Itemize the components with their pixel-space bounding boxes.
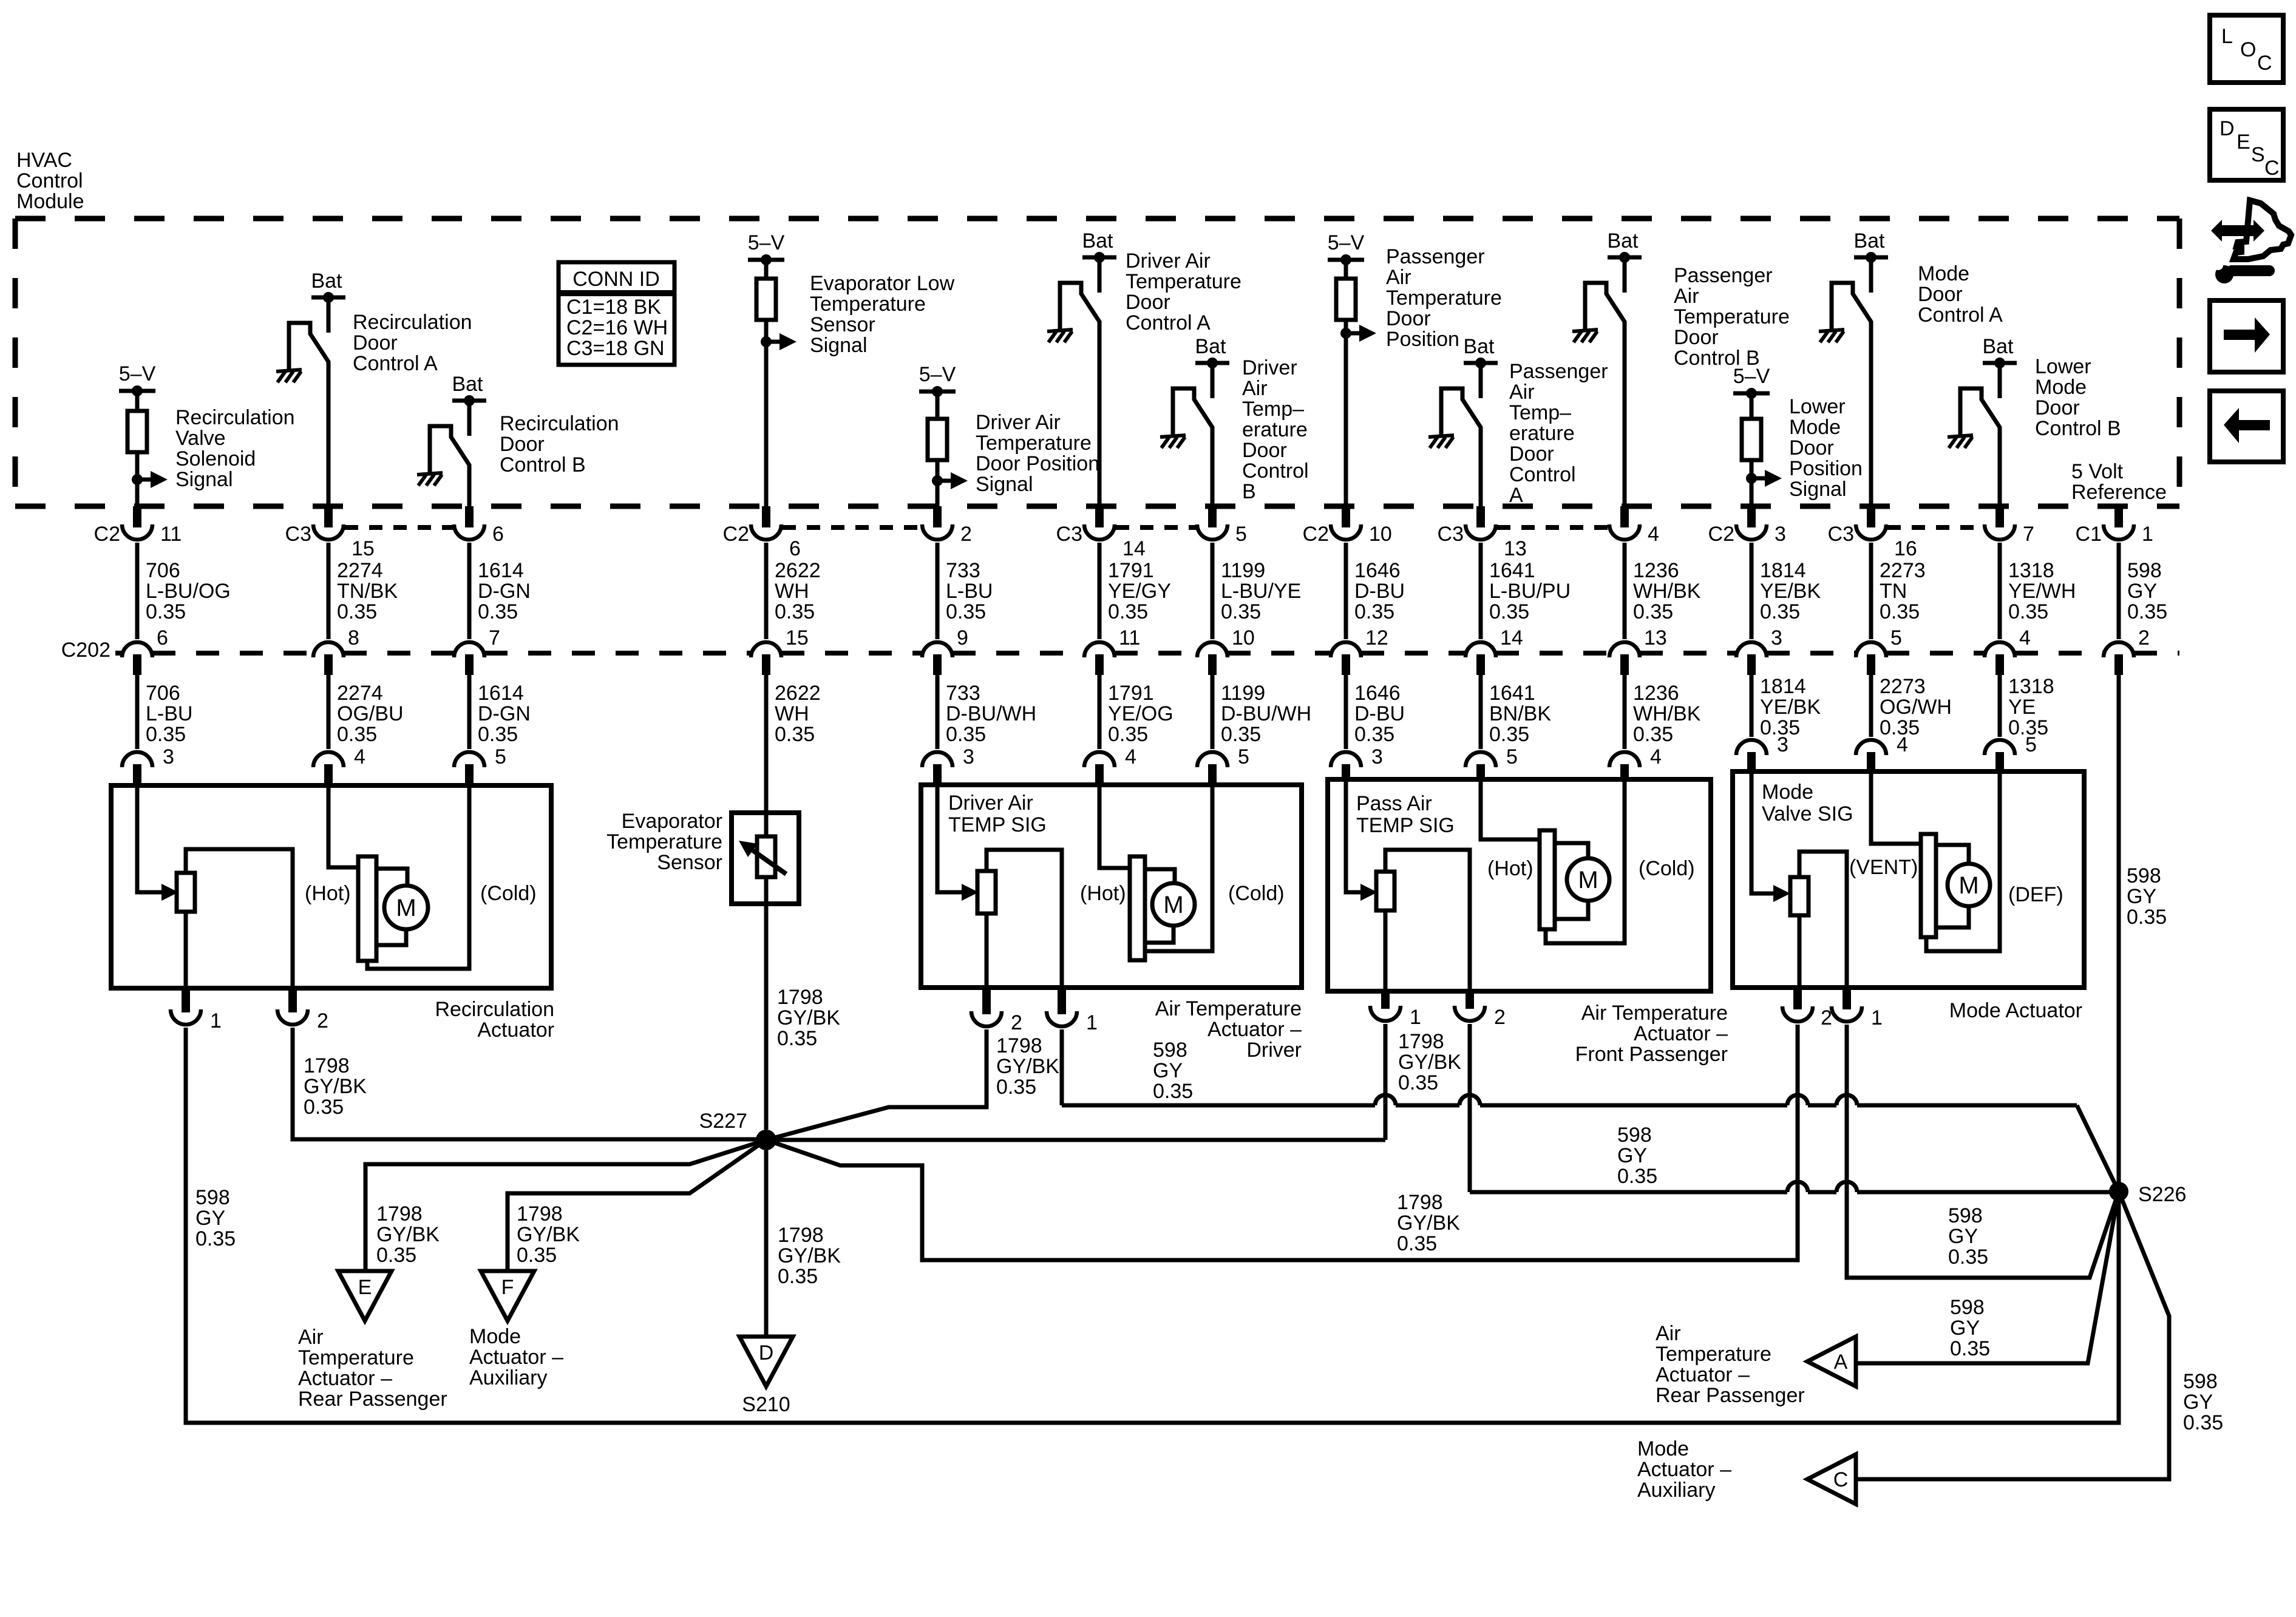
svg-text:GY/BK: GY/BK xyxy=(996,1055,1059,1078)
svg-text:706: 706 xyxy=(146,559,180,582)
svg-text:C3: C3 xyxy=(1438,523,1464,546)
svg-text:C2: C2 xyxy=(1303,523,1329,546)
svg-text:0.35: 0.35 xyxy=(1354,723,1394,746)
svg-text:D-BU/WH: D-BU/WH xyxy=(1221,702,1311,725)
wire 1318 YE (below C202, Lower Mode Door Control B) xyxy=(1998,675,2002,737)
svg-text:1798: 1798 xyxy=(304,1054,350,1077)
wire 1646 D-BU (Passenger Air Temperature Door Position) xyxy=(1344,543,1348,639)
thermistor (evaporator temperature sensor) xyxy=(739,836,786,877)
connector C2 pin 6 (HVAC module, Evaporator Low Temperature Sensor Signal) xyxy=(723,506,801,560)
svg-text:A: A xyxy=(1509,484,1523,507)
label wire 2622 (Evaporator Low Temperature Sensor Signal) xyxy=(775,559,821,623)
wire 1614 D-GN (below C202, Recirculation Door Control B) xyxy=(467,675,472,749)
svg-text:1798: 1798 xyxy=(778,1224,824,1247)
mode actuator title xyxy=(1949,999,2082,1022)
label wire 1646 (Passenger Air Temperature Door Position) xyxy=(1354,559,1405,623)
svg-text:598: 598 xyxy=(1153,1039,1187,1062)
svg-text:5–V: 5–V xyxy=(1733,365,1770,388)
wire (recirc door control B to bar bottom) xyxy=(367,785,469,969)
connector C202 pin 15 (Evaporator Low Temperature Sensor Signal) xyxy=(751,626,809,675)
label (Lower Mode Door Control B) xyxy=(2035,355,2121,440)
svg-text:(Hot): (Hot) xyxy=(1487,857,1533,880)
label (Driver Air Temperature Door Position Signal) xyxy=(976,411,1099,496)
wire (bar to motor top, mode) xyxy=(1936,845,1969,864)
svg-text:Control: Control xyxy=(16,169,83,192)
svg-text:1236: 1236 xyxy=(1633,559,1679,582)
wire (driver door control A to bar) xyxy=(1099,785,1130,868)
svg-text:598: 598 xyxy=(195,1186,230,1209)
svg-text:598: 598 xyxy=(2127,559,2162,582)
svg-text:Rear Passenger: Rear Passenger xyxy=(298,1388,447,1411)
svg-text:L: L xyxy=(2221,25,2233,48)
svg-text:2: 2 xyxy=(317,1009,328,1032)
connector C202 pin 9 (Driver Air Temperature Door Position Signal) xyxy=(922,626,968,675)
switch/driver (Recirculation Door Control A) with ground xyxy=(276,323,328,509)
label wire 598 GY (driver pin1) xyxy=(1153,1039,1193,1103)
wire 1199 D-BU/WH (below C202, Driver Air Temperature Door Control B) xyxy=(1211,675,1215,749)
HVAC Control Module dashed box xyxy=(15,219,2179,506)
wire 1641 BN/BK (below C202, Passenger Air Temperature Door Control A) xyxy=(1479,675,1483,749)
svg-text:Passenger: Passenger xyxy=(1386,245,1485,268)
svg-text:5: 5 xyxy=(1238,745,1249,768)
svg-text:WH/BK: WH/BK xyxy=(1633,702,1701,725)
door bar (mode actuator) xyxy=(1921,834,1936,937)
wire 1798 GY/BK (driver pin2 to S227) xyxy=(766,1029,987,1140)
svg-text:Reference: Reference xyxy=(2071,481,2167,504)
motor M (driver actuator) xyxy=(1152,883,1195,926)
svg-text:Sensor: Sensor xyxy=(810,313,875,336)
HVAC Control Module label xyxy=(16,149,84,213)
potentiometer (driver actuator) xyxy=(977,871,996,914)
switch/driver (Driver Air Temperature Door Control B) with ground xyxy=(1160,388,1212,509)
svg-text:Recirculation: Recirculation xyxy=(435,998,554,1021)
svg-text:Door: Door xyxy=(1674,326,1719,349)
connector pin 5 (actuator, Passenger Air Temperature Door Control A) xyxy=(1466,745,1518,779)
switch/driver (Passenger Air Temperature Door Control A) with ground xyxy=(1428,388,1481,509)
connector pin 5 (actuator, Recirculation Door Control B) xyxy=(454,745,506,785)
svg-text:E: E xyxy=(2237,131,2250,154)
DESC icon box xyxy=(2210,109,2283,180)
svg-text:1641: 1641 xyxy=(1489,682,1535,705)
svg-text:4: 4 xyxy=(1648,523,1659,546)
svg-text:C3: C3 xyxy=(1056,523,1082,546)
svg-text:Air: Air xyxy=(298,1326,324,1349)
svg-text:1798: 1798 xyxy=(517,1202,563,1225)
wire (pass pot bottom to pin 1) xyxy=(1384,910,1388,991)
label wire 598 GY (pass pin2) xyxy=(1617,1124,1657,1188)
svg-text:Signal: Signal xyxy=(976,473,1033,496)
(Hot) label recirc xyxy=(305,882,351,905)
connector C202 pin 5 (Mode Door Control A) xyxy=(1856,626,1902,675)
svg-text:B: B xyxy=(1242,480,1256,503)
svg-text:2: 2 xyxy=(1494,1006,1506,1029)
potentiometer (recirculation actuator) xyxy=(177,873,195,912)
5-V supply node (Passenger Air Temperature Door Position) xyxy=(1328,231,1365,265)
svg-text:Bat: Bat xyxy=(452,373,483,396)
svg-text:1199: 1199 xyxy=(1221,559,1265,582)
connector C202 pin 13 (Passenger Air Temperature Door Control B) xyxy=(1609,626,1667,675)
svg-text:erature: erature xyxy=(1509,422,1575,445)
switch/driver (Driver Air Temperature Door Control A) with ground xyxy=(1047,283,1099,509)
svg-text:1798: 1798 xyxy=(1397,1191,1443,1214)
wire (motor bottom to bar) xyxy=(376,929,406,945)
S210 label xyxy=(742,1393,790,1416)
connector pin 2 (recirc actuator bottom) xyxy=(277,988,328,1032)
svg-text:Bat: Bat xyxy=(1853,229,1885,253)
label wire 1798 GY/BK (recirc pin2) xyxy=(304,1054,367,1119)
svg-text:Temperature: Temperature xyxy=(298,1346,414,1369)
svg-text:4: 4 xyxy=(354,745,365,768)
svg-text:Valve SIG: Valve SIG xyxy=(1762,802,1853,825)
Bat supply (Lower Mode Door Control B) xyxy=(1982,335,2017,398)
wire 733 D-BU/WH (below C202, Driver Air Temperature Door Position Signal) xyxy=(936,675,940,749)
svg-text:Driver Air: Driver Air xyxy=(976,411,1061,434)
svg-text:GY: GY xyxy=(195,1207,225,1230)
recirculation actuator title xyxy=(435,998,554,1042)
svg-text:Mode: Mode xyxy=(1637,1437,1689,1460)
svg-text:Mode Actuator: Mode Actuator xyxy=(1949,999,2082,1022)
wire 1798 GY/BK (S227 to D / S210) xyxy=(764,1150,769,1337)
svg-text:Temperature: Temperature xyxy=(976,432,1092,455)
label wire 2273 (below C202, Mode Door Control A) xyxy=(1880,675,1952,739)
svg-text:Evaporator Low: Evaporator Low xyxy=(810,272,955,295)
label wire 1814 (Lower Mode Door Position Signal) xyxy=(1760,559,1821,623)
svg-text:0.35: 0.35 xyxy=(1950,1337,1990,1360)
svg-text:Valve: Valve xyxy=(175,427,226,450)
svg-text:GY/BK: GY/BK xyxy=(1398,1051,1461,1074)
svg-text:2622: 2622 xyxy=(775,559,821,582)
svg-text:2274: 2274 xyxy=(337,559,383,582)
connector C202 pin 3 (Lower Mode Door Position Signal) xyxy=(1736,626,1782,675)
wire (recirc door control A to motor bar) xyxy=(328,785,358,867)
svg-text:0.35: 0.35 xyxy=(1489,600,1529,623)
label wire 1641 (Passenger Air Temperature Door Control A) xyxy=(1489,559,1571,623)
svg-text:Door Position: Door Position xyxy=(976,452,1099,475)
door bar (recirculation actuator) xyxy=(358,856,376,961)
svg-text:Rear Passenger: Rear Passenger xyxy=(1656,1384,1805,1407)
svg-text:3: 3 xyxy=(163,745,174,768)
splice S227 xyxy=(699,1110,776,1150)
svg-text:Passenger: Passenger xyxy=(1674,264,1773,287)
mode actuator box xyxy=(1733,771,2084,988)
svg-text:12: 12 xyxy=(1365,626,1388,649)
wire 1646 D-BU (below C202, Passenger Air Temperature Door Position) xyxy=(1344,675,1348,749)
svg-text:L-BU: L-BU xyxy=(946,580,993,603)
svg-text:0.35: 0.35 xyxy=(1633,600,1673,623)
svg-text:Recirculation: Recirculation xyxy=(500,412,619,435)
(Cold) label pass xyxy=(1639,857,1695,880)
svg-text:Door: Door xyxy=(1386,307,1431,330)
vehicle data-link icon (car with arrow and wrench) xyxy=(2211,200,2291,283)
svg-text:M: M xyxy=(1163,892,1183,918)
label wire 1798 GY/BK (driver pin2) xyxy=(996,1034,1059,1099)
svg-text:Door: Door xyxy=(500,433,545,456)
svg-text:6: 6 xyxy=(157,626,168,649)
svg-text:0.35: 0.35 xyxy=(1397,1232,1437,1255)
svg-text:1614: 1614 xyxy=(478,559,524,582)
LOC icon box xyxy=(2210,15,2283,83)
svg-text:WH: WH xyxy=(775,702,809,725)
svg-text:1614: 1614 xyxy=(478,682,524,705)
Bat supply (Passenger Air Temperature Door Control A) xyxy=(1463,335,1498,398)
svg-text:Bat: Bat xyxy=(1082,229,1113,253)
svg-text:GY: GY xyxy=(1617,1144,1647,1167)
connector pin 2 (mode actuator bottom) xyxy=(1782,988,1832,1029)
svg-text:0.35: 0.35 xyxy=(195,1227,236,1250)
wire 598 GY (5 Volt Reference) xyxy=(2117,543,2121,639)
(DEF) label xyxy=(2008,883,2063,906)
driver actuator title xyxy=(1155,997,1302,1062)
svg-text:Actuator –: Actuator – xyxy=(1634,1022,1728,1045)
recirculation actuator box xyxy=(111,785,551,988)
previous-page arrow icon xyxy=(2210,391,2283,462)
svg-text:4: 4 xyxy=(1125,745,1136,768)
connector pin 4 (actuator, Recirculation Door Control A) xyxy=(313,745,365,785)
svg-text:Auxiliary: Auxiliary xyxy=(469,1366,547,1389)
svg-text:Actuator –: Actuator – xyxy=(1207,1018,1302,1041)
svg-text:706: 706 xyxy=(146,682,180,705)
svg-text:Front Passenger: Front Passenger xyxy=(1575,1043,1728,1066)
svg-text:GY: GY xyxy=(1153,1059,1183,1082)
label wire 2274 (below C202, Recirculation Door Control A) xyxy=(337,682,404,746)
connector C202 pin 14 (Passenger Air Temperature Door Control A) xyxy=(1466,626,1523,675)
wire 1791 YE/GY (Driver Air Temperature Door Control A) xyxy=(1098,543,1102,639)
wire (motor bottom to bar, mode) xyxy=(1936,906,1969,927)
label wire 1798 GY/BK (E) xyxy=(376,1202,440,1267)
svg-text:S227: S227 xyxy=(699,1110,747,1133)
svg-text:4: 4 xyxy=(2019,626,2031,649)
label Air Temperature Actuator - Rear Passenger (E) xyxy=(298,1326,447,1411)
off-page connector C xyxy=(1807,1454,1856,1504)
svg-text:2622: 2622 xyxy=(775,682,821,705)
wire (mode valve sig to pot wiper) xyxy=(1751,771,1790,902)
svg-text:Control: Control xyxy=(1242,459,1309,483)
svg-text:(DEF): (DEF) xyxy=(2008,883,2063,906)
svg-text:GY/BK: GY/BK xyxy=(778,1244,841,1267)
connector pin 2 (driver actuator bottom) xyxy=(971,988,1022,1034)
wire (mode pot top to pin 1) xyxy=(1799,852,1847,988)
svg-text:L-BU/YE: L-BU/YE xyxy=(1221,580,1301,603)
connector pin 4 (actuator, Passenger Air Temperature Door Control B) xyxy=(1609,745,1662,779)
label Air Temperature Actuator - Rear Passenger (A) xyxy=(1656,1322,1805,1407)
wire 2274 TN/BK (Recirculation Door Control A) xyxy=(327,543,331,639)
svg-text:(Hot): (Hot) xyxy=(305,882,351,905)
svg-text:C: C xyxy=(1833,1468,1849,1491)
connector C202 pin 7 (Recirculation Door Control B) xyxy=(454,626,500,675)
svg-text:Actuator –: Actuator – xyxy=(469,1346,563,1369)
connector pin 3 (actuator, Passenger Air Temperature Door Position) xyxy=(1331,745,1383,779)
next-page arrow icon xyxy=(2210,300,2283,372)
svg-text:Signal: Signal xyxy=(1789,478,1847,501)
svg-text:11: 11 xyxy=(1119,626,1140,649)
svg-text:0.35: 0.35 xyxy=(337,600,377,623)
svg-text:CONN ID: CONN ID xyxy=(572,268,660,291)
Bat supply (Recirculation Door Control A) xyxy=(311,269,345,333)
wire (Evaporator Low Temperature Sensor Signal internal) xyxy=(764,260,769,509)
svg-text:Temperature: Temperature xyxy=(1674,305,1790,328)
svg-text:(Hot): (Hot) xyxy=(1080,882,1126,905)
svg-text:Driver Air: Driver Air xyxy=(948,792,1033,815)
svg-text:10: 10 xyxy=(1369,523,1392,546)
connector pin 2 (pass actuator bottom) xyxy=(1455,991,1506,1029)
svg-text:0.35: 0.35 xyxy=(1880,600,1920,623)
label wire 1798 GY/BK (F) xyxy=(517,1202,580,1267)
svg-text:D: D xyxy=(2220,117,2235,140)
svg-text:0.35: 0.35 xyxy=(778,1265,818,1288)
svg-text:1236: 1236 xyxy=(1633,682,1679,705)
svg-text:Control B: Control B xyxy=(500,453,586,476)
svg-text:0.35: 0.35 xyxy=(1153,1080,1193,1103)
wire 1236 WH/BK (Passenger Air Temperature Door Control B) xyxy=(1623,543,1627,639)
svg-text:erature: erature xyxy=(1242,418,1308,441)
svg-text:5–V: 5–V xyxy=(748,231,785,254)
wire 1614 D-GN (Recirculation Door Control B) xyxy=(467,543,472,639)
svg-text:Air: Air xyxy=(1656,1322,1681,1345)
svg-text:0.35: 0.35 xyxy=(478,600,518,623)
wire 2273 TN (Mode Door Control A) xyxy=(1869,543,1873,639)
wire (mode door control A to bar) xyxy=(1871,771,1921,844)
off-page connector A xyxy=(1807,1337,1856,1386)
connector pin 3 (actuator, Lower Mode Door Position Signal) xyxy=(1736,733,1788,771)
svg-text:(Cold): (Cold) xyxy=(1228,882,1285,905)
wire (lower mode door control B to bar bottom) xyxy=(1926,771,2000,951)
svg-text:Control A: Control A xyxy=(1918,303,2003,327)
svg-text:YE/WH: YE/WH xyxy=(2008,580,2076,603)
svg-text:0.35: 0.35 xyxy=(304,1096,344,1119)
evaporator temperature sensor box xyxy=(732,813,799,904)
wire 1791 YE/OG (below C202, Driver Air Temperature Door Control A) xyxy=(1098,675,1102,749)
svg-text:Auxiliary: Auxiliary xyxy=(1637,1479,1715,1502)
svg-text:Temperature: Temperature xyxy=(606,830,722,853)
svg-text:Mode: Mode xyxy=(1918,262,1969,285)
wire (driver pot top to pin 1) xyxy=(987,850,1062,988)
Bat supply (Driver Air Temperature Door Control A) xyxy=(1082,229,1116,293)
svg-text:Door: Door xyxy=(1918,283,1963,306)
label wire 598 GY (C feed) xyxy=(2183,1370,2223,1434)
svg-text:598: 598 xyxy=(1617,1124,1652,1147)
svg-text:0.35: 0.35 xyxy=(146,600,186,623)
svg-text:0.35: 0.35 xyxy=(775,600,815,623)
label wire 706 (below C202, Recirculation Valve Solenoid Signal) xyxy=(146,682,192,746)
node arrow (Passenger Air Temperature Door Position) xyxy=(1340,325,1376,342)
svg-text:Air Temperature: Air Temperature xyxy=(1581,1002,1728,1025)
svg-text:GY/BK: GY/BK xyxy=(517,1223,580,1246)
label wire 1798 GY/BK (D) xyxy=(778,1224,841,1288)
connector pin 4 (actuator, Mode Door Control A) xyxy=(1856,733,1908,771)
svg-text:Air: Air xyxy=(1674,285,1699,308)
off-page connector F xyxy=(481,1271,534,1321)
wire 2273 OG/WH (below C202, Mode Door Control A) xyxy=(1869,675,1873,737)
connector pin 5 (HVAC module, Driver Air Temperature Door Control B) xyxy=(1197,506,1247,546)
svg-text:0.35: 0.35 xyxy=(1108,723,1148,746)
wire (recirc pot top to pin 2) xyxy=(186,849,293,988)
svg-text:1: 1 xyxy=(1086,1011,1098,1034)
5-V supply node (Evaporator Low Temperature Sensor Signal) xyxy=(748,231,785,265)
svg-text:TEMP SIG: TEMP SIG xyxy=(948,813,1047,836)
connector pin 5 (actuator, Driver Air Temperature Door Control B) xyxy=(1197,745,1249,785)
svg-text:Door: Door xyxy=(1242,439,1287,462)
wire (Lower Mode Door Position Signal internal) xyxy=(1750,393,1754,509)
svg-text:YE: YE xyxy=(2008,696,2036,719)
label wire 1318 (below C202, Lower Mode Door Control B) xyxy=(2008,675,2054,739)
svg-text:5: 5 xyxy=(1890,626,1902,649)
svg-text:M: M xyxy=(1578,867,1598,893)
wire (driver pot bottom to pin 2) xyxy=(985,914,989,988)
svg-text:Lower: Lower xyxy=(2035,355,2091,378)
svg-text:1814: 1814 xyxy=(1760,675,1806,698)
label wire 1798 GY/BK (mode pin2 branch) xyxy=(1397,1191,1460,1255)
air temperature actuator front passenger box xyxy=(1328,779,1711,991)
connector C2 pin 3 (HVAC module, Lower Mode Door Position Signal) xyxy=(1708,506,1786,546)
svg-text:C3: C3 xyxy=(1828,523,1854,546)
wire 1798 GY/BK (S227 to F) xyxy=(508,1140,766,1271)
connector C2 pin 11 (HVAC module, Recirculation Valve Solenoid Signal) xyxy=(94,506,182,546)
node arrow (Evaporator Low Temperature Sensor Signal) xyxy=(761,333,796,350)
wire (mode pot bottom to pin 2) xyxy=(1798,915,1802,988)
svg-text:Actuator –: Actuator – xyxy=(298,1367,392,1390)
svg-text:15: 15 xyxy=(786,626,809,649)
node arrow (Recirculation Valve Solenoid Signal) xyxy=(132,471,168,488)
svg-text:10: 10 xyxy=(1232,626,1255,649)
label wire 598 (5 Volt Reference) xyxy=(2127,559,2167,623)
CONN ID table xyxy=(559,262,674,365)
resistor (Recirculation Valve Solenoid Signal pull-up) xyxy=(127,411,147,452)
svg-text:0.35: 0.35 xyxy=(1489,723,1529,746)
label wire 598 GY (mode pin1) xyxy=(1948,1204,1988,1269)
wire (recirc pot bottom to pin 1) xyxy=(184,912,188,988)
svg-text:0.35: 0.35 xyxy=(146,723,186,746)
wire 1641 L-BU/PU (Passenger Air Temperature Door Control A) xyxy=(1479,543,1483,639)
svg-text:C1: C1 xyxy=(2076,523,2102,546)
svg-text:598: 598 xyxy=(1950,1296,1985,1319)
connector C202 dashed line xyxy=(61,639,2179,662)
svg-text:BN/BK: BN/BK xyxy=(1489,702,1551,725)
svg-text:0.35: 0.35 xyxy=(376,1244,416,1267)
wire 706 L-BU/OG (Recirculation Valve Solenoid Signal) xyxy=(135,543,140,639)
svg-text:GY/BK: GY/BK xyxy=(777,1006,840,1029)
svg-text:13: 13 xyxy=(1644,626,1667,649)
wire 1798 GY/BK (S227 to mode pin2) xyxy=(766,1025,1798,1260)
svg-text:0.35: 0.35 xyxy=(775,723,815,746)
svg-text:Control A: Control A xyxy=(353,352,438,375)
svg-text:Bat: Bat xyxy=(1982,335,2014,358)
label wire 1199 (Driver Air Temperature Door Control B) xyxy=(1221,559,1301,623)
svg-text:A: A xyxy=(1834,1351,1848,1374)
svg-text:14: 14 xyxy=(1500,626,1523,649)
svg-text:11: 11 xyxy=(160,523,182,546)
svg-text:Temperature: Temperature xyxy=(1386,286,1502,310)
svg-text:8: 8 xyxy=(348,626,359,649)
svg-text:Bat: Bat xyxy=(1195,335,1226,358)
label (Evaporator Low Temperature Sensor Signal) xyxy=(810,272,955,357)
resistor (Passenger Air Temperature Door Position pull-up) xyxy=(1336,279,1356,320)
svg-text:Temp–: Temp– xyxy=(1509,401,1571,424)
svg-text:M: M xyxy=(396,895,416,921)
wire 1236 WH/BK (below C202, Passenger Air Temperature Door Control B) xyxy=(1623,675,1627,749)
svg-text:Door: Door xyxy=(1126,291,1170,314)
label Mode Actuator - Auxiliary (F) xyxy=(469,1325,563,1389)
connector C2 pin 10 (HVAC module, Passenger Air Temperature Door Position) xyxy=(1303,506,1392,546)
svg-text:2273: 2273 xyxy=(1880,559,1926,582)
svg-text:0.35: 0.35 xyxy=(1760,600,1800,623)
wire 1199 L-BU/YE (Driver Air Temperature Door Control B) xyxy=(1211,543,1215,639)
svg-text:Door: Door xyxy=(2035,396,2080,419)
svg-text:HVAC: HVAC xyxy=(16,149,72,172)
svg-text:9: 9 xyxy=(957,626,968,649)
motor M (mode actuator) xyxy=(1948,864,1990,906)
svg-text:2: 2 xyxy=(1011,1011,1022,1034)
wire (bar to motor top, pass) xyxy=(1555,843,1588,859)
